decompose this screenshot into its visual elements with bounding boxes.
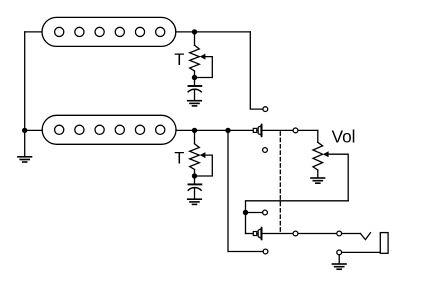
wiper of T1 (arrow + return wire to bottom) (197, 54, 212, 78)
ground: C2 (188, 199, 202, 204)
wire: jack sleeve to ground terminal (342, 251, 381, 253)
wire: junction to throw E (246, 212, 263, 214)
wire: sleeve terminal to ground (338, 255, 340, 264)
wire: P1 hot out to switch throw (top run) (176, 31, 251, 33)
potentiometer VOL (313, 130, 323, 177)
wire: volume wiper bus to lower switch pole (246, 201, 349, 234)
jack tip terminal (open circle, on wire) (337, 231, 342, 236)
node: junction P2 hot / tone 2 (192, 128, 197, 133)
node: bus junction at P2 left (22, 128, 27, 133)
pickup P2 (bridge single-coil, 6 poles) (42, 115, 176, 144)
node: T2 bottom junction (192, 173, 197, 178)
switch throw contact E (open circle) (263, 210, 268, 215)
wire: bus to P2 left terminal (25, 129, 43, 131)
node: junction P1 hot / tone 1 (192, 29, 197, 34)
switch throw contact C (open circle, unconnected) (263, 148, 268, 153)
ground: left bus (18, 157, 32, 162)
svg-text:T: T (174, 149, 184, 167)
wire: P2 hot out to switch pole (middle run) (176, 129, 253, 131)
svg-text:T: T (174, 51, 184, 69)
pickup P1 (neck single-coil, 6 poles) (42, 17, 176, 46)
switch throw contact B (open circle, on wire) (293, 128, 298, 133)
wire: P1 left terminal to left bus (25, 31, 42, 33)
switch pole SW1b (moving contact, lower) (246, 228, 262, 240)
wire: SW1a pole to volume (263, 129, 318, 131)
ground: output jack (332, 264, 346, 269)
potentiometer T2 (tone 2) (190, 130, 200, 176)
wire: SW1b pole to output jack tip (263, 233, 361, 235)
potentiometer T1 (tone 1) (190, 32, 200, 78)
node: T1 bottom junction (192, 75, 197, 80)
jack sleeve terminal (open circle) (337, 250, 342, 255)
switch throw contact D (open circle, on wire) (293, 231, 298, 236)
node: junction P2 hot / lower feed (225, 128, 230, 133)
ground: VOL (311, 178, 325, 183)
wiper of T2 (arrow + return wire to bottom) (197, 152, 212, 176)
wire: right vertical down to switch throw A (250, 32, 262, 109)
wire: left ground bus vertical (24, 32, 26, 156)
svg-text:Vol: Vol (332, 126, 356, 146)
switch throw contact F (open circle) (263, 249, 268, 254)
wiper of VOL (arrow + wire down to switch) (323, 151, 348, 201)
ground: C1 (188, 101, 202, 106)
output jack J1 (tip spring + body) (360, 233, 388, 254)
node: junction lower pole / throw E (243, 210, 248, 215)
capacitor C2 (tone 2) (188, 176, 201, 199)
wire: lower feed from P2 junction down to switch throw F (228, 130, 263, 251)
switch linkage (dashed) (279, 132, 281, 231)
switch pole SW1a (moving contact, upper) (253, 125, 261, 137)
switch throw contact A (open circle) (263, 107, 268, 112)
capacitor C1 (tone 1) (188, 78, 201, 101)
